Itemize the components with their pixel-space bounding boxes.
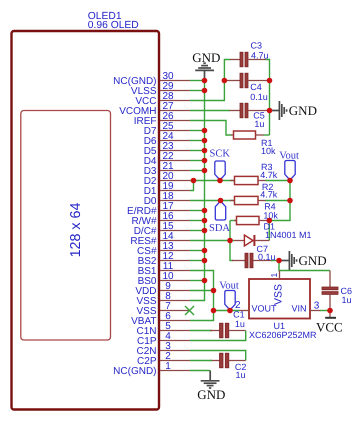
wire RES# pin14 row — [190, 240, 234, 242]
wire VDD pin9 to riser — [190, 290, 214, 292]
svg-text:XC6206P252MR: XC6206P252MR — [249, 330, 317, 340]
svg-text:C1: C1 — [233, 309, 245, 319]
net label SCK flag — [210, 148, 231, 180]
svg-text:0.96 OLED: 0.96 OLED — [88, 20, 139, 31]
OLED module OLED1 outline — [12, 11, 160, 410]
wire Vout column right — [269, 181, 290, 221]
wire SCK/D2 row: pin20 to R3 — [190, 180, 235, 182]
svg-text:4.7k: 4.7k — [260, 170, 278, 180]
wire GND trunk vertical with bend into pin 8 — [190, 81, 205, 301]
svg-text:SDA: SDA — [209, 223, 230, 234]
pin 15 D/C# — [134, 221, 190, 237]
wire C2N pin3row to C2 bridge — [190, 351, 246, 361]
wire VCC net: pin28 to riser — [190, 60, 231, 101]
svg-text:1u: 1u — [236, 370, 246, 380]
wire C1N pin5 to C1 — [190, 330, 212, 332]
svg-text:3: 3 — [314, 301, 320, 312]
svg-text:VIN: VIN — [292, 304, 307, 314]
node SDA flag tap — [218, 198, 224, 204]
pin 17 E/RD# — [127, 201, 190, 217]
net label Vout flag top right — [279, 150, 299, 180]
node GND right trunk at C5 right — [267, 108, 273, 114]
ground GND right of C5 (earth symbol rotated) — [270, 101, 317, 120]
ground GND right of C7 (earth symbol rotated) — [279, 251, 327, 270]
pin 8 VSS — [136, 291, 190, 307]
wire VSS net: C7 junction down and right to C6 top — [279, 261, 330, 271]
node SCK flag tap — [217, 178, 223, 184]
regulator U1 XC6206P252MR — [235, 271, 321, 341]
node GND trunk junctions (pins 30,29,25,24,23,22,21,17,16,15,13,12,10) — [202, 78, 208, 284]
wire GND net: pin16 to trunk — [190, 220, 205, 222]
wire VIN pin3 to VCC node — [320, 310, 330, 312]
diode D1 1N4001 — [234, 222, 312, 247]
node RES# junction — [227, 238, 233, 244]
pin 14 RES# — [130, 231, 190, 247]
node D1-D2 tie on SCK row — [191, 178, 197, 184]
pin 3 C2N — [136, 341, 190, 357]
capacitor C5 1u — [230, 103, 270, 129]
pin 9 VDD — [135, 281, 190, 297]
capacitor C7 0.1u — [232, 244, 279, 268]
ground GND top (earth symbol above trunk) — [192, 50, 220, 81]
capacitor C2 1u — [210, 353, 246, 380]
node VCC riser at C4 — [222, 78, 228, 84]
node VDD on Vout riser — [211, 288, 217, 294]
wire GND net: pin12 to trunk — [190, 260, 205, 262]
wire GND net: pin22 to trunk — [190, 160, 205, 162]
pin 20 D2 — [144, 171, 190, 187]
svg-text:GND: GND — [192, 50, 220, 65]
svg-text:0.1u: 0.1u — [258, 252, 276, 262]
net label Vout flag bottom — [219, 280, 239, 310]
svg-text:10k: 10k — [261, 146, 276, 156]
svg-text:SCK: SCK — [210, 148, 231, 159]
svg-text:GND: GND — [289, 103, 317, 118]
svg-text:1u: 1u — [342, 295, 352, 305]
wire C1 right down to C1P pin4 — [190, 331, 246, 341]
pin 4 C1P — [137, 331, 190, 347]
resistor R2 4.7k — [230, 182, 290, 205]
wire VCOMH pin27 to C5 — [190, 110, 230, 112]
node GND right trunk at C4 right — [267, 78, 273, 84]
node Vout row on riser — [211, 308, 217, 314]
wire GND net: pin21 to trunk — [190, 170, 205, 172]
no-connect X on pin 7 — [185, 306, 194, 315]
pin 18 D0 — [144, 191, 190, 207]
wire R4 left riser down to RES# row — [229, 221, 231, 241]
wire RES# riser down to C7 — [230, 241, 233, 261]
wire D1 cathode riser to Vout corner — [268, 221, 270, 241]
capacitor C6 1u (vertical) — [322, 271, 352, 311]
svg-text:VOUT: VOUT — [252, 304, 278, 314]
wire GND net: pin10 to trunk — [190, 280, 205, 282]
wire NC(GND) pin1 to bottom ground — [190, 370, 210, 372]
pin 19 D1 — [144, 181, 190, 197]
wire SDA/D0 row: pin18 to R2 — [190, 200, 235, 202]
pin 24 D6 — [144, 131, 190, 147]
svg-text:C3: C3 — [251, 40, 263, 50]
pin 12 BS2 — [138, 251, 190, 267]
wire Vout row to U1 VOUT pin — [214, 310, 240, 312]
capacitor C1 1u — [210, 309, 246, 338]
pin 25 D7 — [144, 121, 190, 137]
svg-text:1u: 1u — [235, 319, 245, 329]
svg-text:0.1u: 0.1u — [250, 92, 268, 102]
resistor R1 10k — [231, 131, 276, 156]
pin 7 VSS — [136, 301, 190, 317]
svg-text:C4: C4 — [250, 82, 262, 92]
resistor R4 10k — [230, 201, 278, 224]
pin 13 CS# — [137, 241, 190, 257]
node C7 right / GND — [276, 258, 282, 264]
pin 23 D5 — [144, 141, 190, 157]
pin 2 C2P — [137, 351, 190, 367]
wire GND net: pin15 to trunk — [190, 230, 205, 232]
node Vout flag tap top — [287, 178, 293, 184]
pin 16 R/W# — [132, 211, 191, 227]
wire GND net: pin30 to trunk — [190, 80, 205, 82]
power VCC symbol — [316, 311, 343, 335]
wire GND net: pin24 to trunk — [190, 140, 205, 142]
pin 22 D4 — [144, 151, 190, 167]
wire GND net: pin17 to trunk — [190, 210, 205, 212]
svg-text:GND: GND — [197, 387, 225, 402]
svg-text:1: 1 — [269, 273, 279, 278]
wire GND right trunk (C3 right down to R1) — [266, 60, 270, 136]
ground GND bottom (earth symbol below pin 1) — [197, 371, 225, 402]
net label SDA flag — [209, 201, 230, 234]
pin 27 VCOMH — [119, 101, 190, 117]
wire GND net: pin25 to trunk — [190, 130, 205, 132]
pin 26 IREF — [134, 111, 190, 127]
pin 21 D3 — [144, 161, 190, 177]
wire Vout net: riser from pin11 down left side — [190, 271, 214, 321]
pin 1 NC(GND) — [113, 361, 190, 377]
resistor R3 4.7k — [230, 162, 290, 185]
node R4 right / D1 cathode — [267, 218, 273, 224]
wire GND net: pin23 to trunk — [190, 150, 205, 152]
svg-text:Vout: Vout — [279, 150, 299, 161]
pin 28 VCC — [135, 91, 190, 107]
svg-text:NC(GND): NC(GND) — [113, 366, 156, 377]
node Vout column at R2 right — [287, 198, 293, 204]
capacitor C4 0.1u — [224, 73, 269, 102]
svg-text:GND: GND — [299, 253, 327, 268]
svg-text:Vout: Vout — [219, 280, 239, 291]
svg-text:128 x 64: 128 x 64 — [68, 203, 84, 258]
svg-text:1u: 1u — [254, 119, 264, 129]
pin 5 C1N — [136, 321, 190, 337]
pin 6 VBAT — [131, 311, 190, 327]
pin 11 BS1 — [138, 261, 190, 277]
svg-text:VSS: VSS — [273, 284, 285, 305]
pin 29 VLSS — [131, 81, 190, 97]
wire pin19 riser joining pin20 row — [190, 181, 194, 191]
capacitor C3 4.7u — [230, 40, 269, 67]
svg-text:1: 1 — [165, 361, 171, 372]
wire GND net: pin29 to trunk — [190, 90, 205, 92]
svg-text:VCC: VCC — [316, 320, 343, 335]
node Vout flag tap bottom — [227, 308, 233, 314]
node VCC / VIN / C6 — [327, 308, 333, 314]
svg-text:4.7k: 4.7k — [260, 190, 278, 200]
wire IREF pin26 to R1 — [190, 121, 232, 136]
pin 10 BS0 — [138, 271, 190, 287]
display area 128 x 64 — [21, 111, 111, 341]
svg-text:1N4001 M1: 1N4001 M1 — [265, 230, 312, 240]
pin 30 NC(GND) — [113, 71, 190, 87]
wire C2P pin2 to C2 — [190, 360, 212, 362]
wire GND net: pin13 to trunk — [190, 250, 205, 252]
